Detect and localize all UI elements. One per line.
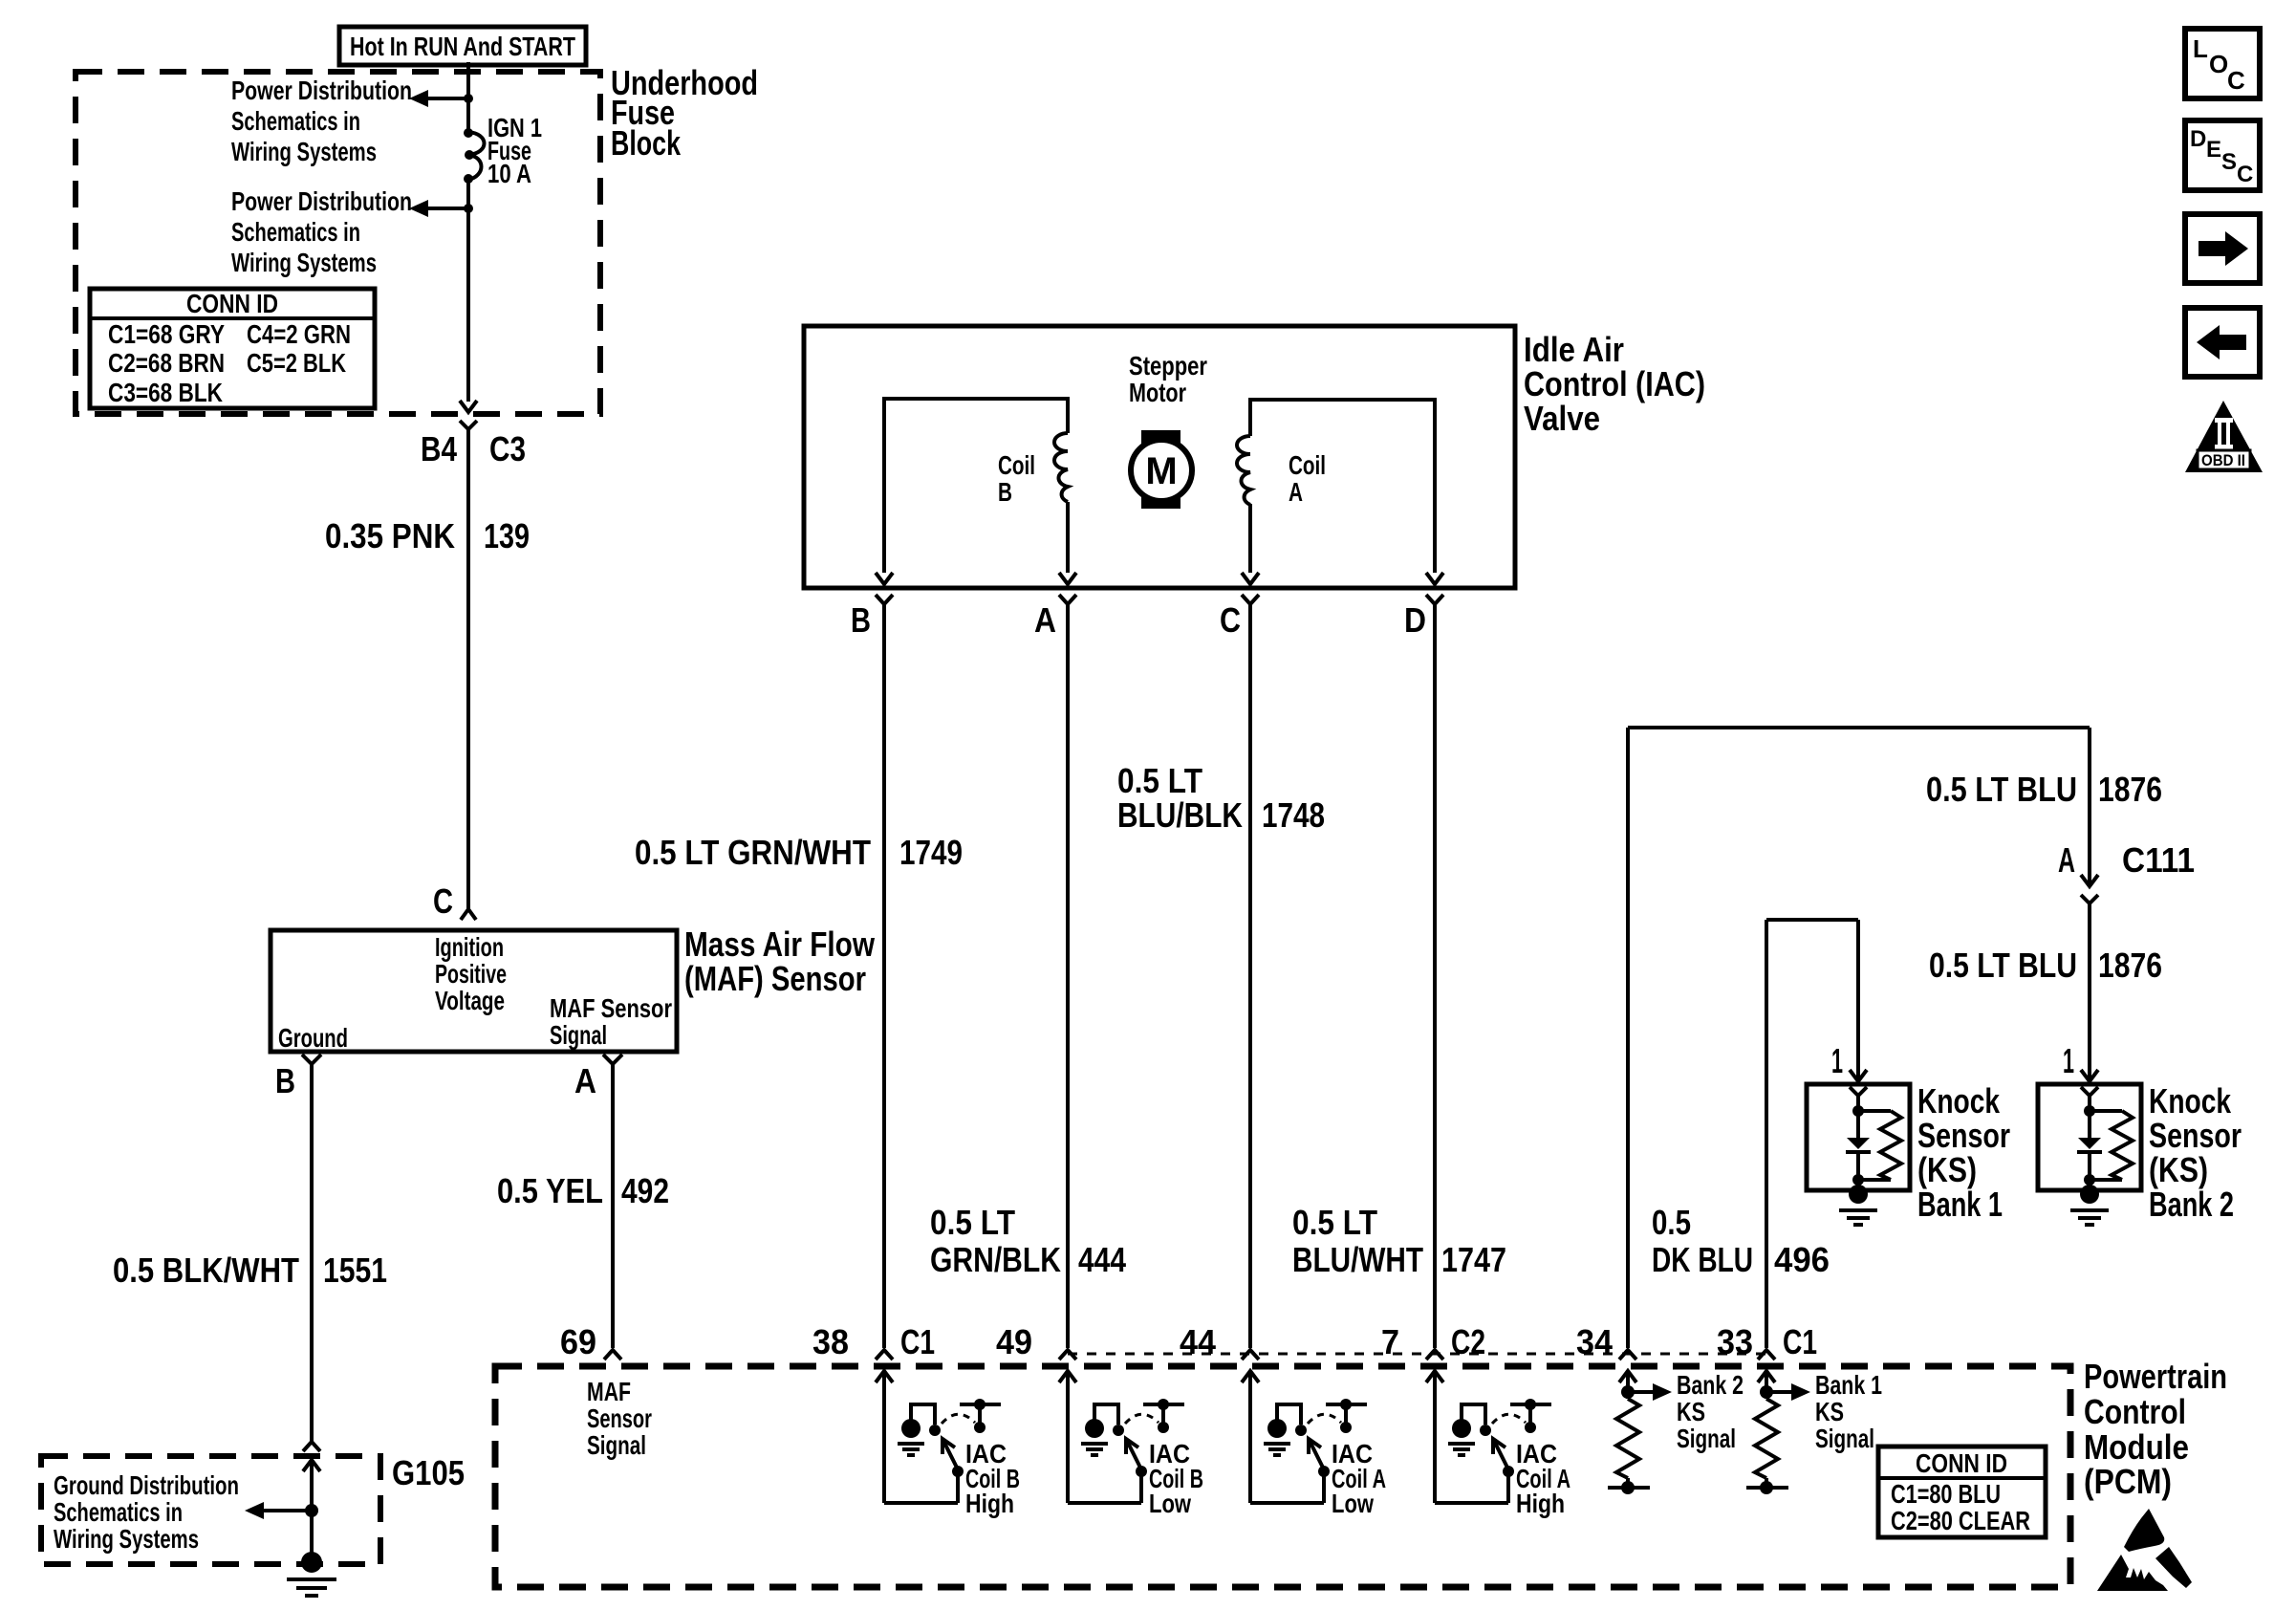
svg-text:MAF Sensor: MAF Sensor bbox=[550, 993, 672, 1023]
connector B4 / C3 bbox=[421, 401, 526, 468]
svg-text:Bank 1: Bank 1 bbox=[1917, 1185, 2003, 1224]
svg-text:Ignition: Ignition bbox=[435, 932, 504, 962]
svg-text:C: C bbox=[433, 881, 453, 921]
svg-text:1: 1 bbox=[2063, 1041, 2074, 1080]
wire 0.5 LT BLU 1876 (C111 to KS bank 2) bbox=[1929, 903, 2162, 1081]
svg-text:C2=68 BRN: C2=68 BRN bbox=[108, 348, 225, 378]
svg-text:BLU/BLK: BLU/BLK bbox=[1117, 795, 1243, 835]
PCM dashed box bbox=[495, 1366, 2070, 1587]
svg-text:Schematics in: Schematics in bbox=[54, 1497, 183, 1527]
svg-text:0.5 LT BLU: 0.5 LT BLU bbox=[1929, 946, 2077, 985]
svg-text:Bank 2: Bank 2 bbox=[2149, 1185, 2234, 1224]
connector pin 7 bbox=[1381, 1322, 1485, 1361]
svg-text:M: M bbox=[1145, 450, 1177, 492]
fuse IGN 1 10A bbox=[464, 113, 542, 188]
svg-text:Motor: Motor bbox=[1129, 378, 1186, 407]
svg-text:1748: 1748 bbox=[1262, 795, 1325, 835]
connector pin B of IAC bbox=[851, 595, 893, 640]
svg-text:E: E bbox=[2206, 137, 2221, 163]
svg-text:B: B bbox=[998, 477, 1012, 507]
svg-text:0.5 LT BLU: 0.5 LT BLU bbox=[1926, 770, 2077, 809]
svg-text:A: A bbox=[2058, 840, 2075, 880]
svg-text:33: 33 bbox=[1717, 1322, 1753, 1361]
svg-text:C2=80 CLEAR: C2=80 CLEAR bbox=[1891, 1506, 2030, 1535]
connector at G105 bbox=[303, 1442, 320, 1511]
svg-text:C5=2 BLK: C5=2 BLK bbox=[247, 348, 346, 378]
wire 0.5 LT BLU/WHT 1747 (IAC D to PCM 7) bbox=[1292, 604, 1506, 1348]
svg-text:B: B bbox=[851, 600, 871, 640]
icon LOC bbox=[2185, 29, 2260, 98]
svg-text:496: 496 bbox=[1774, 1240, 1830, 1279]
svg-text:Sensor: Sensor bbox=[1917, 1116, 2010, 1155]
coil B of IAC bbox=[876, 399, 1076, 584]
connector line C2 (thin dashed) bbox=[1068, 1353, 1766, 1356]
svg-text:Idle Air: Idle Air bbox=[1524, 330, 1624, 369]
svg-text:Control: Control bbox=[2084, 1392, 2186, 1431]
svg-text:492: 492 bbox=[621, 1171, 669, 1210]
label Idle Air Control (IAC) Valve bbox=[1524, 330, 1705, 438]
ground G105 dashed box bbox=[41, 1453, 465, 1564]
svg-text:D: D bbox=[2190, 126, 2206, 152]
svg-text:1551: 1551 bbox=[323, 1251, 387, 1290]
ground symbol G105 bbox=[287, 1511, 336, 1596]
svg-text:C3: C3 bbox=[489, 429, 526, 468]
svg-text:A: A bbox=[1289, 477, 1303, 507]
driver Coil A High (PCM internal switch) bbox=[1426, 1371, 1570, 1518]
driver Coil A Low (PCM internal switch) bbox=[1242, 1371, 1386, 1518]
svg-text:C2: C2 bbox=[1451, 1322, 1485, 1361]
connector pin 34 bbox=[1576, 1322, 1636, 1361]
stepper motor M bbox=[1129, 351, 1207, 509]
svg-text:Coil: Coil bbox=[1289, 450, 1326, 480]
svg-text:High: High bbox=[965, 1489, 1014, 1518]
svg-text:C1=68 GRY: C1=68 GRY bbox=[108, 319, 225, 349]
node C (MAF connector pin C) bbox=[433, 881, 476, 921]
connector pin A of IAC bbox=[1034, 595, 1076, 640]
svg-text:69: 69 bbox=[560, 1322, 596, 1361]
svg-text:Low: Low bbox=[1149, 1489, 1191, 1518]
wire 0.5 YEL 492 bbox=[497, 1064, 669, 1348]
svg-text:CONN ID: CONN ID bbox=[186, 289, 278, 318]
wire 0.5 LT BLU 1876 (PCM 34 to C111) bbox=[1628, 728, 2162, 1348]
svg-text:Voltage: Voltage bbox=[435, 986, 505, 1015]
label Knock Sensor (KS) Bank 1 bbox=[1917, 1081, 2010, 1224]
svg-text:Sensor: Sensor bbox=[587, 1403, 652, 1433]
connector pin D of IAC bbox=[1404, 595, 1443, 640]
svg-text:O: O bbox=[2209, 50, 2228, 78]
wire 0.35 PNK 139 bbox=[325, 429, 530, 909]
knock sensor (KS) Bank 2 bbox=[2038, 1041, 2141, 1225]
svg-text:Low: Low bbox=[1332, 1489, 1374, 1518]
svg-text:(MAF) Sensor: (MAF) Sensor bbox=[684, 959, 866, 998]
svg-text:38: 38 bbox=[812, 1322, 849, 1361]
connector pin 44 bbox=[1180, 1322, 1259, 1361]
driver Coil B Low (PCM internal switch) bbox=[1059, 1371, 1203, 1518]
node power distribution tap 1 bbox=[231, 76, 473, 166]
connector pin 38 bbox=[812, 1322, 935, 1361]
connector pin 69 (MAF sensor signal input) bbox=[560, 1322, 652, 1460]
svg-text:0.5 LT GRN/WHT: 0.5 LT GRN/WHT bbox=[635, 833, 871, 872]
svg-text:Valve: Valve bbox=[1524, 399, 1600, 438]
connector pin A of MAF bbox=[574, 1055, 622, 1100]
CONN ID table (fuse block) bbox=[90, 289, 375, 408]
driver Coil B High (PCM internal switch) bbox=[876, 1371, 1020, 1518]
svg-text:Control (IAC): Control (IAC) bbox=[1524, 364, 1705, 403]
svg-text:1749: 1749 bbox=[899, 833, 963, 872]
wire IGN1 feed vertical bbox=[466, 62, 470, 402]
resistor Bank 2 KS input (PCM internal) bbox=[1608, 1370, 1744, 1494]
svg-text:High: High bbox=[1516, 1489, 1565, 1518]
svg-text:Mass Air Flow: Mass Air Flow bbox=[684, 925, 876, 964]
node ground distribution tap bbox=[54, 1470, 318, 1554]
svg-text:C: C bbox=[2227, 66, 2245, 95]
icon arrow left bbox=[2185, 308, 2260, 377]
svg-text:Signal: Signal bbox=[1677, 1424, 1736, 1453]
svg-text:0.5 LT: 0.5 LT bbox=[1117, 761, 1202, 800]
svg-text:KS: KS bbox=[1677, 1397, 1705, 1426]
svg-text:(PCM): (PCM) bbox=[2084, 1462, 2172, 1501]
svg-text:Power Distribution: Power Distribution bbox=[231, 76, 412, 105]
icon OBD II triangle bbox=[2185, 401, 2263, 472]
label Knock Sensor (KS) Bank 2 bbox=[2149, 1081, 2242, 1224]
svg-text:Ground Distribution: Ground Distribution bbox=[54, 1470, 239, 1500]
svg-text:Coil: Coil bbox=[998, 450, 1035, 480]
svg-text:0.5 LT: 0.5 LT bbox=[1292, 1203, 1377, 1242]
IAC valve box bbox=[804, 326, 1515, 588]
svg-text:49: 49 bbox=[996, 1322, 1032, 1361]
svg-text:Wiring Systems: Wiring Systems bbox=[54, 1524, 199, 1554]
svg-text:1747: 1747 bbox=[1441, 1240, 1506, 1279]
svg-text:C1=80 BLU: C1=80 BLU bbox=[1891, 1479, 2001, 1509]
svg-text:1: 1 bbox=[1831, 1041, 1843, 1080]
connector pin C of IAC bbox=[1220, 595, 1259, 640]
svg-text:G105: G105 bbox=[392, 1453, 465, 1492]
svg-text:(KS): (KS) bbox=[1917, 1150, 1977, 1189]
svg-text:Bank 2: Bank 2 bbox=[1677, 1370, 1744, 1400]
svg-text:1876: 1876 bbox=[2098, 770, 2162, 809]
label Underhood Fuse Block bbox=[611, 63, 758, 163]
connector pin 33 bbox=[1717, 1322, 1817, 1361]
svg-text:Module: Module bbox=[2084, 1427, 2189, 1467]
svg-text:Signal: Signal bbox=[587, 1430, 646, 1460]
svg-text:0.5 YEL: 0.5 YEL bbox=[497, 1171, 603, 1210]
knock sensor (KS) Bank 1 bbox=[1807, 1041, 1910, 1225]
svg-text:Schematics in: Schematics in bbox=[231, 106, 360, 136]
svg-text:0.35 PNK: 0.35 PNK bbox=[325, 516, 455, 555]
wire 0.5 DK BLU 496 (PCM 33 to KS bank 1) bbox=[1652, 920, 1867, 1348]
svg-text:10 A: 10 A bbox=[487, 159, 531, 188]
svg-text:Sensor: Sensor bbox=[2149, 1116, 2242, 1155]
svg-text:Schematics in: Schematics in bbox=[231, 217, 360, 247]
label Mass Air Flow (MAF) Sensor bbox=[684, 925, 876, 998]
svg-text:MAF: MAF bbox=[587, 1377, 631, 1406]
resistor Bank 1 KS input (PCM internal) bbox=[1746, 1370, 1882, 1494]
svg-text:B4: B4 bbox=[421, 429, 457, 468]
svg-text:444: 444 bbox=[1078, 1240, 1126, 1279]
node power distribution tap 2 bbox=[231, 186, 473, 277]
svg-text:Signal: Signal bbox=[1815, 1424, 1874, 1453]
svg-text:DK BLU: DK BLU bbox=[1652, 1240, 1753, 1279]
icon arrow right bbox=[2185, 214, 2260, 283]
svg-text:C: C bbox=[2237, 162, 2253, 187]
svg-text:0.5: 0.5 bbox=[1652, 1203, 1691, 1242]
svg-text:Power Distribution: Power Distribution bbox=[231, 186, 412, 216]
svg-text:GRN/BLK: GRN/BLK bbox=[930, 1240, 1061, 1279]
svg-text:C1: C1 bbox=[900, 1322, 935, 1361]
MAF sensor box bbox=[271, 930, 677, 1053]
svg-text:CONN ID: CONN ID bbox=[1916, 1448, 2007, 1478]
svg-text:Wiring Systems: Wiring Systems bbox=[231, 137, 377, 166]
svg-text:Signal: Signal bbox=[550, 1020, 607, 1050]
svg-text:7: 7 bbox=[1381, 1322, 1399, 1361]
coil A of IAC bbox=[1237, 400, 1443, 584]
svg-text:1876: 1876 bbox=[2098, 946, 2162, 985]
svg-text:D: D bbox=[1404, 600, 1426, 640]
label Powertrain Control Module (PCM) bbox=[2084, 1357, 2227, 1501]
svg-text:S: S bbox=[2221, 149, 2237, 175]
svg-text:0.5 LT: 0.5 LT bbox=[930, 1203, 1015, 1242]
CONN ID table (PCM) bbox=[1878, 1447, 2046, 1537]
connector pin 49 bbox=[996, 1322, 1076, 1361]
ESD sensitivity symbol bbox=[2097, 1509, 2192, 1591]
wire 0.5 LT GRN/BLK 444 (IAC A to PCM 49) bbox=[930, 604, 1126, 1348]
icon DESC bbox=[2185, 120, 2260, 190]
svg-text:KS: KS bbox=[1815, 1397, 1844, 1426]
svg-text:Stepper: Stepper bbox=[1129, 351, 1207, 381]
svg-text:44: 44 bbox=[1180, 1322, 1216, 1361]
wire 0.5 LT GRN/WHT 1749 (IAC B to PCM 38) bbox=[635, 604, 963, 1348]
svg-text:C3=68 BLK: C3=68 BLK bbox=[108, 378, 223, 407]
svg-text:C1: C1 bbox=[1783, 1322, 1817, 1361]
svg-text:0.5 BLK/WHT: 0.5 BLK/WHT bbox=[113, 1251, 299, 1290]
svg-text:Block: Block bbox=[611, 123, 682, 163]
svg-text:Powertrain: Powertrain bbox=[2084, 1357, 2227, 1396]
svg-text:Hot In RUN And START: Hot In RUN And START bbox=[350, 32, 575, 61]
svg-text:OBD II: OBD II bbox=[2201, 451, 2245, 469]
svg-text:139: 139 bbox=[484, 516, 530, 555]
svg-text:Positive: Positive bbox=[435, 959, 507, 989]
svg-text:Knock: Knock bbox=[1917, 1081, 2001, 1120]
node Hot In RUN And START bbox=[339, 27, 586, 65]
svg-text:C111: C111 bbox=[2122, 840, 2195, 880]
svg-text:Ground: Ground bbox=[278, 1023, 348, 1053]
svg-text:L: L bbox=[2193, 34, 2208, 63]
wire 0.5 BLK/WHT 1551 bbox=[113, 1064, 387, 1442]
svg-text:C4=2 GRN: C4=2 GRN bbox=[247, 319, 351, 349]
svg-text:A: A bbox=[574, 1061, 596, 1100]
connector A C111 bbox=[2058, 840, 2195, 903]
svg-text:(KS): (KS) bbox=[2149, 1150, 2208, 1189]
svg-text:C: C bbox=[1220, 600, 1241, 640]
svg-text:Knock: Knock bbox=[2149, 1081, 2232, 1120]
wire 0.5 LT BLU/BLK 1748 (IAC C to PCM 44) bbox=[1117, 604, 1325, 1348]
svg-text:BLU/WHT: BLU/WHT bbox=[1292, 1240, 1423, 1279]
svg-text:34: 34 bbox=[1576, 1322, 1613, 1361]
connector pin B of MAF bbox=[275, 1055, 321, 1100]
svg-text:B: B bbox=[275, 1061, 295, 1100]
svg-text:Bank 1: Bank 1 bbox=[1815, 1370, 1882, 1400]
svg-text:A: A bbox=[1034, 600, 1056, 640]
svg-text:Wiring Systems: Wiring Systems bbox=[231, 248, 377, 277]
underhood fuse block (dashed box) bbox=[76, 72, 600, 414]
